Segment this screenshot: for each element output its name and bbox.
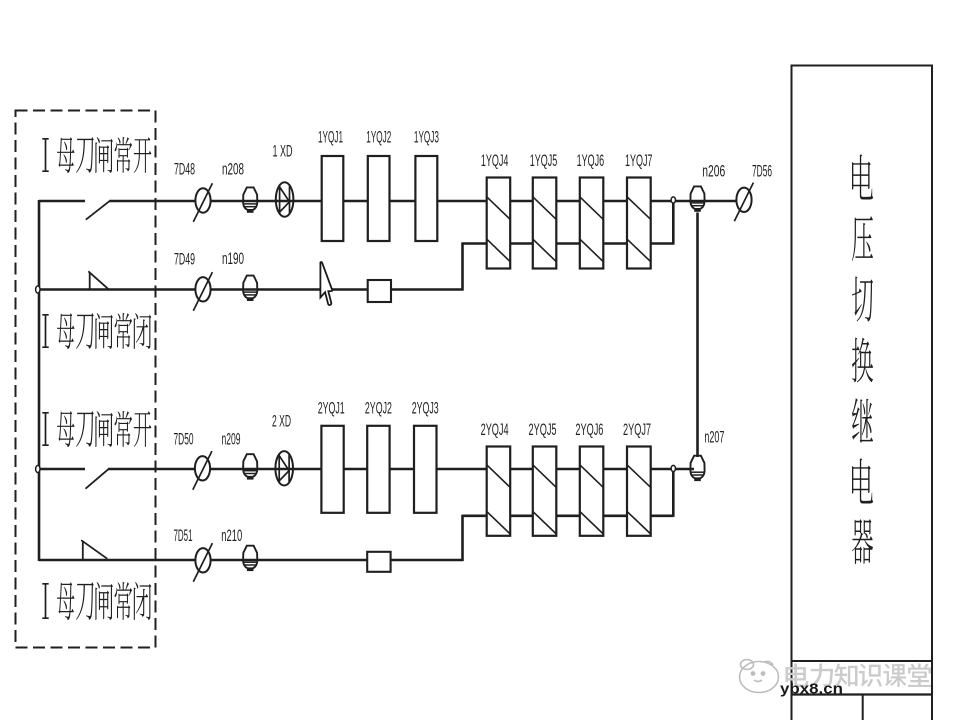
series box: line2 resistor — [368, 280, 391, 302]
svg-text:7D56: 7D56 — [752, 163, 772, 181]
svg-text:n209: n209 — [222, 431, 241, 449]
fuse 7D56 — [734, 183, 753, 222]
svg-text:2YQJ7: 2YQJ7 — [623, 421, 651, 439]
node B: line3 / branch junction — [671, 465, 675, 471]
wire: line3 left segment — [39, 468, 85, 471]
svg-text:n206: n206 — [702, 163, 725, 181]
svg-text:n208: n208 — [222, 161, 244, 179]
label: I-bus knife normally-open (row 3) — [42, 411, 151, 447]
svg-text:1YQJ3: 1YQJ3 — [414, 129, 439, 147]
switch stop bar: line4 NC contact — [82, 542, 84, 561]
svg-text:2YQJ5: 2YQJ5 — [529, 421, 557, 439]
node: bus junction line2 — [36, 286, 40, 293]
terminal n206 — [690, 186, 704, 211]
wire: branch riser to node A — [672, 201, 675, 245]
svg-text:1YQJ4: 1YQJ4 — [481, 152, 509, 170]
fuse 7D50 — [193, 451, 212, 490]
changeover contact 1YQJ4 — [487, 178, 511, 269]
changeover contact 2YQJ4 — [487, 447, 511, 536]
changeover contact 2YQJ7 — [627, 447, 651, 536]
wire: line4 riser up to contact branch — [461, 515, 464, 561]
fuse 7D49 — [193, 272, 212, 311]
series box: line4 resistor — [367, 552, 390, 572]
wire: line1 main run — [110, 200, 745, 203]
svg-text:2 XD: 2 XD — [272, 413, 291, 431]
svg-text:7D51: 7D51 — [174, 527, 193, 545]
svg-text:1YQJ7: 1YQJ7 — [625, 152, 653, 170]
mouse cursor arrow — [320, 262, 332, 305]
svg-text:2YQJ1: 2YQJ1 — [318, 400, 345, 418]
changeover contact 1YQJ5 — [533, 178, 557, 269]
switch stop bar: line2 NC contact — [89, 273, 91, 291]
watermark logo — [740, 660, 779, 693]
changeover contact 2YQJ6 — [580, 447, 604, 536]
wire: vertical n206 to n207 — [696, 213, 699, 458]
signal lamp 2XD — [275, 451, 293, 485]
label: voltage switching relay (vertical) — [852, 154, 873, 563]
enclosure: I-bus disconnector auxiliary contact box (dashed) — [16, 111, 156, 648]
node A: line1 / branch junction — [671, 197, 675, 203]
svg-text:1YQJ1: 1YQJ1 — [318, 129, 343, 147]
fuse 7D48 — [193, 183, 212, 222]
svg-text:2YQJ4: 2YQJ4 — [481, 421, 509, 439]
switch blade: I-bus knife NO contact (top) — [86, 200, 111, 219]
wire: contact branch (bottom group lower run) — [463, 514, 674, 517]
switch blade: I-bus knife NC contact (line2) — [88, 271, 109, 290]
label: I-bus knife normally-open (row 1) — [42, 137, 151, 173]
label: I-bus knife normally-closed (row 4) — [42, 582, 151, 620]
changeover contact 1YQJ6 — [580, 178, 604, 269]
wire: line3 main run — [108, 468, 694, 471]
terminal n209 — [243, 454, 257, 479]
relay coil 2YQJ1 — [321, 426, 343, 513]
svg-text:7D48: 7D48 — [174, 161, 195, 179]
node: bus junction line3 — [36, 465, 40, 472]
wire: line2 riser up to contact branch — [461, 242, 464, 290]
watermark text: power knowledge classroom — [785, 663, 931, 687]
svg-text:1YQJ2: 1YQJ2 — [366, 129, 391, 147]
changeover contact 1YQJ7 — [627, 178, 651, 269]
svg-text:2YQJ6: 2YQJ6 — [575, 421, 603, 439]
svg-text:7D49: 7D49 — [174, 251, 195, 269]
fuse 7D51 — [193, 543, 212, 582]
changeover contact 2YQJ5 — [533, 447, 557, 536]
relay coil 1YQJ2 — [368, 156, 390, 241]
terminal n207 — [690, 456, 704, 481]
switch blade: I-bus knife NO contact (line3) — [86, 469, 109, 489]
wire: line2 run — [39, 288, 463, 291]
panel: voltage switching relay box — [791, 66, 934, 720]
svg-text:n190: n190 — [222, 250, 244, 268]
svg-text:1YQJ6: 1YQJ6 — [577, 152, 605, 170]
relay coil 2YQJ2 — [367, 426, 389, 513]
svg-text:n210: n210 — [221, 527, 242, 545]
terminal n208 — [243, 187, 257, 212]
svg-text:n207: n207 — [704, 429, 724, 447]
wire: line1 left segment — [39, 200, 85, 203]
terminal n210 — [243, 546, 257, 571]
label: I-bus knife normally-closed (row 2) — [42, 313, 151, 349]
relay coil 1YQJ1 — [322, 156, 344, 241]
terminal n190 — [243, 276, 257, 301]
relay coil 2YQJ3 — [414, 426, 437, 513]
svg-text:7D50: 7D50 — [174, 431, 194, 449]
wire: left vertical bus — [38, 200, 41, 561]
wire: branch riser to node B — [672, 469, 675, 517]
svg-text:2YQJ2: 2YQJ2 — [365, 400, 392, 418]
svg-text:2YQJ3: 2YQJ3 — [412, 400, 439, 418]
svg-text:ybx8.cn: ybx8.cn — [780, 682, 843, 698]
svg-text:1YQJ5: 1YQJ5 — [530, 152, 558, 170]
relay coil 1YQJ3 — [415, 156, 437, 241]
svg-text:1 XD: 1 XD — [273, 143, 293, 161]
wire: contact branch (top group lower run) — [463, 242, 674, 245]
signal lamp 1XD — [276, 182, 294, 216]
switch blade: I-bus knife NC contact (line4) — [81, 540, 107, 559]
wire: line4 run — [39, 559, 463, 562]
